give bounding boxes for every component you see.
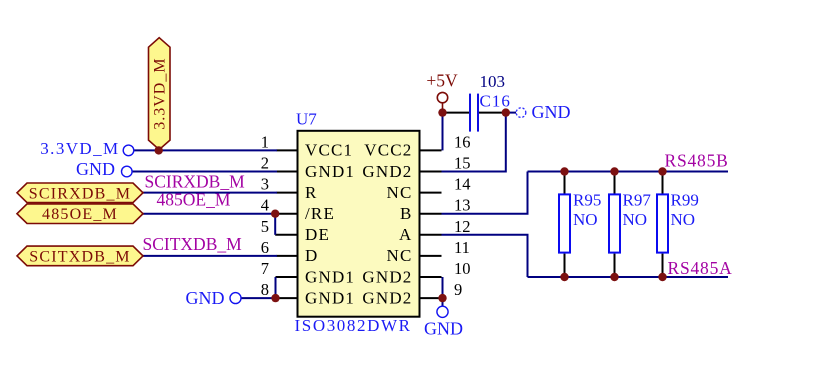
svg-text:GND: GND bbox=[76, 159, 115, 179]
svg-text:485OE_M: 485OE_M bbox=[157, 189, 231, 209]
svg-text:ISO3082DWR: ISO3082DWR bbox=[295, 316, 412, 335]
junction port 3.3VD_M on pin1 wire bbox=[155, 146, 163, 154]
wire pin1 from circle to chip bbox=[134, 149, 277, 151]
svg-text:15: 15 bbox=[454, 154, 471, 173]
svg-text:SCIRXDB_M: SCIRXDB_M bbox=[29, 185, 131, 202]
pin 1 stub bbox=[277, 149, 298, 151]
svg-text:GND2: GND2 bbox=[362, 162, 412, 181]
svg-text:3.3VD_M: 3.3VD_M bbox=[152, 57, 169, 129]
wire pin4 from port to chip bbox=[143, 213, 277, 215]
wire RS485B rail bbox=[528, 171, 729, 173]
svg-text:7: 7 bbox=[261, 259, 269, 278]
junction +5V bbox=[438, 108, 446, 116]
IC U7 body bbox=[298, 131, 420, 317]
svg-text:GND: GND bbox=[186, 288, 225, 308]
wire pin13 B to RS485B rail bbox=[442, 172, 528, 214]
power port GND bottom (pin9) bbox=[424, 306, 463, 338]
svg-text:GND1: GND1 bbox=[305, 162, 355, 181]
svg-text:U7: U7 bbox=[296, 110, 317, 129]
svg-text:GND1: GND1 bbox=[305, 288, 355, 307]
svg-text:SCIRXDB_M: SCIRXDB_M bbox=[145, 171, 246, 191]
svg-text:6: 6 bbox=[261, 238, 269, 257]
wire pin2 from circle to chip bbox=[132, 171, 277, 173]
capacitor C16 right lead bbox=[479, 112, 504, 114]
junction R95 top bbox=[560, 167, 568, 175]
wire pin15 to capacitor junction bbox=[442, 113, 506, 172]
pin 9 stub bbox=[420, 297, 442, 299]
svg-text:R95: R95 bbox=[573, 191, 601, 210]
svg-text:SCITXDB_M: SCITXDB_M bbox=[143, 234, 243, 254]
svg-text:NC: NC bbox=[386, 246, 412, 265]
svg-text:GND: GND bbox=[424, 319, 463, 339]
port 3.3VD_M vertical bbox=[149, 38, 171, 150]
wire pin12 A to RS485A rail bbox=[442, 235, 528, 277]
svg-text:3: 3 bbox=[261, 175, 269, 194]
svg-text:14: 14 bbox=[454, 175, 471, 194]
resistor R99 body bbox=[657, 172, 668, 278]
wire capacitor right to GND marker bbox=[506, 112, 516, 114]
svg-text:VCC2: VCC2 bbox=[364, 141, 412, 160]
junction pin4 bbox=[271, 210, 279, 218]
pin 16 stub bbox=[420, 149, 442, 151]
pin 5 stub bbox=[275, 234, 297, 236]
pin 11 stub bbox=[420, 255, 442, 257]
port SCITXDB_M bbox=[17, 246, 143, 266]
junction R99 top bbox=[658, 167, 666, 175]
svg-text:+5V: +5V bbox=[426, 71, 458, 91]
svg-text:10: 10 bbox=[454, 259, 471, 278]
svg-text:2: 2 bbox=[261, 154, 269, 173]
pin 6 stub bbox=[277, 255, 298, 257]
resistor R95 body bbox=[559, 172, 570, 278]
wire tie pin4 to pin5 bbox=[274, 214, 276, 235]
pin 12 stub bbox=[420, 234, 442, 236]
net flag 3.3VD_M (left of pin1) bbox=[40, 139, 134, 158]
power port +5V bbox=[426, 71, 458, 110]
svg-text:GND: GND bbox=[532, 102, 571, 122]
resistor R95 labels bbox=[573, 191, 601, 230]
pin 8 stub bbox=[277, 297, 298, 299]
capacitor C16 plates bbox=[470, 94, 478, 132]
port 485OE_M bbox=[17, 204, 143, 224]
svg-text:NO: NO bbox=[573, 210, 598, 229]
svg-text:3.3VD_M: 3.3VD_M bbox=[40, 139, 119, 158]
net flag GND (left of pin8) bbox=[186, 288, 242, 308]
svg-text:GND1: GND1 bbox=[305, 267, 355, 286]
svg-text:485OE_M: 485OE_M bbox=[42, 206, 118, 223]
capacitor C16 left lead bbox=[443, 112, 470, 114]
svg-text:DE: DE bbox=[305, 225, 330, 244]
svg-text:R99: R99 bbox=[671, 191, 699, 210]
power port GND top right bbox=[516, 102, 570, 122]
pin 13 stub bbox=[420, 213, 442, 215]
svg-text:1: 1 bbox=[261, 132, 269, 151]
pin 3 stub bbox=[277, 192, 298, 194]
junction R99 bottom bbox=[658, 273, 666, 281]
wire pin10 to pin9 tie bbox=[442, 277, 444, 298]
pin 4 stub bbox=[277, 213, 298, 215]
svg-text:R: R bbox=[305, 183, 318, 202]
net flag GND (left of pin2) bbox=[76, 159, 132, 179]
svg-text:RS485A: RS485A bbox=[668, 258, 733, 278]
pin 10 stub bbox=[420, 276, 442, 278]
svg-text:VCC1: VCC1 bbox=[305, 141, 353, 160]
svg-text:5: 5 bbox=[261, 217, 269, 236]
junction R95 bottom bbox=[560, 273, 568, 281]
pin 14 stub bbox=[420, 192, 442, 194]
svg-text:/RE: /RE bbox=[305, 204, 335, 223]
svg-text:12: 12 bbox=[454, 217, 471, 236]
svg-text:D: D bbox=[305, 246, 318, 265]
svg-text:16: 16 bbox=[454, 132, 471, 151]
wire pin9 junction stem to GND bbox=[442, 298, 444, 306]
svg-text:NO: NO bbox=[623, 210, 648, 229]
svg-text:GND2: GND2 bbox=[362, 288, 412, 307]
svg-text:C16: C16 bbox=[480, 92, 511, 111]
svg-text:GND2: GND2 bbox=[362, 267, 412, 286]
svg-text:NC: NC bbox=[386, 183, 412, 202]
svg-text:R97: R97 bbox=[623, 191, 652, 210]
pin 7 stub bbox=[276, 276, 298, 278]
svg-text:B: B bbox=[400, 204, 413, 223]
junction capacitor right bbox=[502, 108, 510, 116]
junction pin9 GND bbox=[438, 294, 446, 302]
svg-text:103: 103 bbox=[480, 72, 506, 91]
wire pin6 from port to chip bbox=[143, 255, 277, 257]
svg-text:11: 11 bbox=[454, 238, 470, 257]
junction R97 bottom bbox=[610, 273, 618, 281]
wire pin8 from GND circle to junction bbox=[241, 297, 276, 299]
pin 2 stub bbox=[277, 171, 298, 173]
wire pin3 from port to chip bbox=[143, 192, 277, 194]
svg-text:4: 4 bbox=[261, 196, 269, 215]
pin 15 stub bbox=[420, 171, 442, 173]
wire tie pin7 to pin8 bbox=[275, 277, 277, 298]
svg-text:SCITXDB_M: SCITXDB_M bbox=[29, 248, 130, 265]
svg-text:13: 13 bbox=[454, 196, 471, 215]
junction pin8 bbox=[271, 294, 279, 302]
resistor R97 labels bbox=[623, 191, 652, 230]
resistor R97 body bbox=[609, 172, 620, 278]
wire +5V vertical to pin16 bbox=[442, 113, 444, 151]
svg-text:A: A bbox=[399, 225, 412, 244]
svg-text:9: 9 bbox=[454, 280, 462, 299]
svg-text:8: 8 bbox=[261, 280, 269, 299]
junction R97 top bbox=[610, 167, 618, 175]
wire RS485A rail bbox=[528, 276, 729, 278]
svg-text:NO: NO bbox=[671, 210, 696, 229]
svg-text:RS485B: RS485B bbox=[665, 150, 729, 170]
port SCIRXDB_M bbox=[17, 183, 143, 203]
resistor R99 labels bbox=[671, 191, 699, 230]
